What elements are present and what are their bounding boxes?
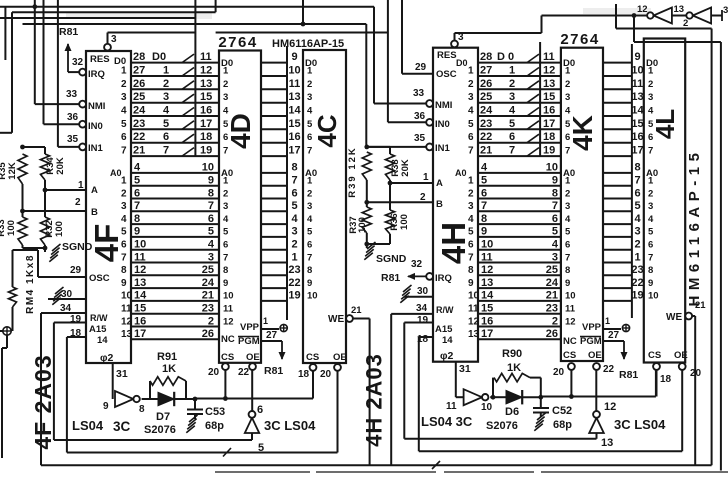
svg-text:RES: RES — [90, 54, 110, 65]
svg-text:NC: NC — [563, 336, 577, 347]
svg-text:φ2: φ2 — [440, 350, 454, 362]
wire top rail 1 (NMI net, both CPUs) — [0, 7, 374, 104]
RAM 4C internal address labels — [305, 168, 318, 302]
svg-text:2: 2 — [648, 79, 653, 90]
svg-text:23: 23 — [133, 118, 145, 130]
svg-text:24: 24 — [202, 277, 215, 289]
svg-text:15: 15 — [288, 118, 300, 130]
svg-text:27: 27 — [608, 330, 620, 341]
svg-text:4: 4 — [468, 214, 474, 225]
svg-text:15: 15 — [481, 303, 493, 315]
svg-text:27: 27 — [266, 330, 278, 341]
svg-text:15: 15 — [134, 303, 146, 315]
svg-text:23: 23 — [288, 264, 300, 276]
svg-text:21: 21 — [133, 145, 145, 157]
svg-text:5: 5 — [307, 119, 313, 130]
svg-text:1K: 1K — [162, 363, 176, 375]
svg-text:1: 1 — [634, 251, 640, 263]
svg-text:13: 13 — [631, 91, 643, 103]
EPROM 4K internal address labels — [563, 168, 577, 347]
inverter 3C LS04 (4H chip-select) — [589, 401, 666, 449]
svg-text:6: 6 — [121, 240, 127, 251]
svg-text:8: 8 — [565, 265, 570, 276]
svg-text:14: 14 — [442, 335, 453, 346]
RAM 4L label 4L — [650, 109, 680, 139]
svg-text:3: 3 — [723, 5, 728, 16]
pin 32 IRQ of 4F — [68, 57, 105, 80]
resistor R36 100 — [386, 183, 411, 234]
svg-text:1: 1 — [648, 176, 654, 187]
svg-text:A15: A15 — [89, 324, 107, 335]
svg-text:9: 9 — [468, 278, 474, 289]
svg-text:2: 2 — [565, 188, 570, 199]
svg-text:D6: D6 — [505, 406, 519, 418]
wire IN0 4H net — [216, 0, 388, 122]
pin 30 of 4F with hatch — [48, 287, 86, 305]
svg-text:4: 4 — [223, 106, 229, 117]
wire top rail 2 entering at left edge — [0, 0, 216, 133]
inverter 3C LS04 (4F chip-select) — [245, 404, 316, 454]
svg-text:12: 12 — [481, 264, 493, 276]
svg-text:17: 17 — [134, 328, 146, 340]
pull-up R81 arrow annotation (4F IRQ) — [59, 26, 78, 72]
svg-text:5: 5 — [208, 226, 214, 238]
svg-text:7: 7 — [307, 252, 312, 263]
svg-text:27: 27 — [133, 65, 145, 77]
svg-text:17: 17 — [288, 145, 300, 157]
scan smudge top left — [66, 13, 212, 19]
svg-text:22: 22 — [288, 277, 300, 289]
svg-text:6: 6 — [634, 187, 640, 199]
svg-text:NMI: NMI — [88, 101, 105, 112]
EPROM 4K label 4K — [567, 115, 598, 151]
svg-text:8: 8 — [307, 265, 312, 276]
svg-text:20: 20 — [208, 367, 220, 378]
svg-text:CS: CS — [221, 352, 234, 363]
wire OSC 4H drop — [401, 0, 403, 74]
svg-text:16: 16 — [481, 315, 493, 327]
svg-text:34: 34 — [416, 303, 428, 314]
svg-text:4: 4 — [163, 105, 170, 117]
svg-text:1: 1 — [307, 66, 313, 77]
svg-text:R91: R91 — [157, 351, 177, 363]
pin 20 CS of 4K — [553, 350, 576, 397]
data rows EPROM 4K to RAM 4L — [603, 51, 644, 157]
svg-text:12: 12 — [200, 65, 212, 77]
svg-text:18: 18 — [660, 374, 672, 385]
scan smudge top right — [583, 8, 651, 14]
svg-text:IN0: IN0 — [435, 119, 450, 130]
svg-text:6: 6 — [565, 240, 570, 251]
svg-text:8: 8 — [223, 265, 228, 276]
svg-text:11: 11 — [468, 304, 479, 315]
svg-text:PGM: PGM — [238, 336, 260, 347]
svg-text:11: 11 — [223, 304, 234, 315]
svg-text:6: 6 — [648, 132, 653, 143]
pin 1 A of 4H — [390, 172, 443, 189]
svg-text:5: 5 — [163, 118, 169, 130]
svg-text:11: 11 — [200, 51, 212, 63]
CPU 4H internal data pin labels — [456, 58, 474, 157]
pin 31 phi2 wire of 4F — [113, 363, 128, 399]
svg-text:IN0: IN0 — [88, 121, 103, 132]
terminal circle (RM4 input) — [0, 327, 11, 458]
svg-text:19: 19 — [417, 315, 429, 326]
svg-text:25: 25 — [133, 91, 145, 103]
svg-text:1: 1 — [307, 176, 313, 187]
svg-text:6: 6 — [565, 132, 570, 143]
pin 21 WE of 4L — [666, 300, 706, 465]
svg-text:A0: A0 — [110, 168, 122, 178]
svg-text:VPP: VPP — [240, 322, 260, 333]
svg-text:6: 6 — [509, 131, 515, 143]
svg-text:18: 18 — [70, 328, 82, 339]
svg-text:20: 20 — [690, 368, 702, 379]
svg-text:5: 5 — [468, 227, 474, 238]
svg-text:S2076: S2076 — [144, 424, 176, 436]
data bus vertical (right) — [539, 42, 541, 157]
svg-text:23: 23 — [631, 264, 643, 276]
svg-text:4: 4 — [481, 162, 488, 174]
svg-text:13: 13 — [674, 4, 685, 15]
svg-text:4: 4 — [565, 106, 571, 117]
bus line between 4K and 4L — [631, 44, 633, 318]
svg-text:19: 19 — [288, 290, 300, 302]
svg-text:8: 8 — [634, 162, 640, 174]
svg-text:2764: 2764 — [218, 34, 257, 51]
svg-text:8: 8 — [481, 213, 487, 225]
svg-text:16: 16 — [200, 105, 212, 117]
svg-text:R/W: R/W — [436, 305, 454, 315]
svg-text:2: 2 — [509, 78, 515, 90]
svg-text:10: 10 — [223, 291, 234, 302]
svg-text:A0: A0 — [455, 168, 467, 178]
svg-text:4: 4 — [121, 106, 127, 117]
svg-text:13: 13 — [468, 329, 480, 340]
svg-text:28: 28 — [480, 51, 492, 63]
svg-text:6: 6 — [163, 131, 169, 143]
svg-text:C52: C52 — [552, 405, 572, 417]
svg-text:3C: 3C — [113, 419, 131, 434]
svg-text:6: 6 — [552, 213, 558, 225]
wire RC node to CS 4K and CS 4L — [541, 370, 656, 399]
svg-text:R81: R81 — [264, 365, 283, 377]
svg-text:1: 1 — [605, 316, 610, 326]
svg-text:6: 6 — [134, 187, 140, 199]
svg-text:21: 21 — [480, 145, 492, 157]
svg-text:3C LS04: 3C LS04 — [264, 418, 316, 433]
pin 21 WE of 4C — [328, 305, 370, 465]
label 2764 (left) — [218, 34, 257, 51]
address rows CPU 4H to EPROM 4K — [478, 162, 561, 340]
node RC junction (right) — [538, 395, 543, 400]
svg-text:3: 3 — [307, 201, 312, 212]
svg-text:CS: CS — [563, 350, 576, 361]
svg-text:B: B — [91, 207, 98, 218]
svg-text:4: 4 — [648, 106, 654, 117]
svg-text:12: 12 — [121, 316, 133, 327]
svg-text:2: 2 — [648, 188, 653, 199]
svg-text:9: 9 — [103, 401, 109, 412]
svg-text:25: 25 — [480, 91, 492, 103]
svg-text:OE: OE — [333, 352, 347, 363]
svg-text:4H 2A03: 4H 2A03 — [362, 353, 387, 447]
svg-text:18: 18 — [298, 369, 310, 380]
svg-text:3: 3 — [648, 201, 653, 212]
svg-text:RM4 1Kx8: RM4 1Kx8 — [25, 254, 36, 314]
resistor R91 1K — [150, 351, 186, 399]
svg-text:9: 9 — [565, 278, 570, 289]
svg-text:2: 2 — [208, 315, 214, 327]
svg-text:2: 2 — [683, 18, 688, 29]
svg-text:B: B — [436, 199, 443, 210]
svg-text:SGND: SGND — [62, 241, 93, 253]
svg-text:D7: D7 — [156, 411, 170, 423]
svg-text:14: 14 — [97, 335, 108, 346]
inverter 3C LS04 (4F clock) — [72, 391, 145, 434]
wire A15 4H to OE 4L — [419, 337, 682, 451]
pin 2 B of 4H — [367, 192, 443, 210]
svg-text:2: 2 — [565, 79, 570, 90]
svg-text:28: 28 — [133, 51, 145, 63]
svg-text:1: 1 — [468, 66, 474, 77]
svg-text:36: 36 — [414, 111, 426, 122]
svg-text:3: 3 — [291, 226, 297, 238]
label RES inside 4F — [90, 54, 110, 65]
svg-text:4: 4 — [134, 162, 141, 174]
svg-text:PGM: PGM — [580, 336, 602, 347]
svg-text:13: 13 — [601, 437, 613, 449]
svg-text:4: 4 — [208, 239, 215, 251]
pin 20 CS of 4D — [208, 352, 234, 399]
pin 36 IN0 of 4F — [44, 112, 103, 132]
wire R38 to pin A of 4H — [388, 180, 393, 185]
svg-text:OSC: OSC — [89, 273, 110, 284]
diode D6 S2076 — [486, 390, 541, 432]
svg-text:6: 6 — [307, 132, 312, 143]
svg-text:32: 32 — [411, 259, 423, 270]
svg-text:20: 20 — [553, 367, 565, 378]
svg-text:6: 6 — [208, 213, 214, 225]
svg-text:1: 1 — [223, 66, 229, 77]
svg-text:7: 7 — [468, 146, 474, 157]
svg-text:23: 23 — [546, 303, 558, 315]
svg-text:10: 10 — [202, 162, 214, 174]
EPROM 4D label 4D — [225, 113, 256, 149]
svg-text:8: 8 — [139, 404, 145, 415]
svg-text:7: 7 — [552, 200, 558, 212]
svg-text:9: 9 — [223, 278, 228, 289]
svg-text:HM6116AP-15: HM6116AP-15 — [686, 148, 703, 307]
svg-text:12: 12 — [637, 4, 648, 15]
svg-text:7: 7 — [121, 252, 127, 263]
svg-text:4L: 4L — [650, 109, 680, 139]
label RES inside 4H — [437, 50, 457, 61]
svg-text:7: 7 — [509, 145, 515, 157]
svg-text:3: 3 — [223, 92, 228, 103]
svg-text:8: 8 — [291, 162, 297, 174]
wire R34 to pin A — [43, 180, 48, 192]
svg-text:3: 3 — [307, 92, 312, 103]
svg-text:1: 1 — [163, 65, 169, 77]
svg-text:31: 31 — [116, 368, 128, 380]
svg-text:S2076: S2076 — [486, 420, 518, 432]
svg-text:C53: C53 — [205, 406, 225, 418]
svg-text:9: 9 — [121, 278, 127, 289]
svg-text:21: 21 — [546, 290, 558, 302]
svg-text:24: 24 — [546, 277, 559, 289]
svg-text:23: 23 — [480, 118, 492, 130]
wire inverter out to RC node — [142, 398, 158, 400]
resistor R37 100 — [348, 207, 371, 234]
svg-text:7: 7 — [648, 146, 653, 157]
svg-text:16: 16 — [134, 315, 146, 327]
CPU 4H label 4H — [435, 222, 472, 264]
svg-text:1: 1 — [78, 180, 84, 191]
svg-text:VPP: VPP — [582, 322, 602, 333]
pin 35 IN1 of 4H — [367, 133, 451, 154]
svg-text:22: 22 — [133, 131, 145, 143]
svg-text:1: 1 — [423, 172, 429, 183]
pin 29 OSC of 4H — [402, 62, 457, 80]
svg-text:D 0: D 0 — [497, 51, 514, 63]
svg-text:27: 27 — [480, 65, 492, 77]
svg-text:9: 9 — [481, 226, 487, 238]
svg-text:HM6116AP-15: HM6116AP-15 — [272, 38, 344, 50]
pin 31 phi2 wire of 4H — [456, 362, 471, 398]
svg-text:10: 10 — [307, 291, 318, 302]
svg-text:R81: R81 — [381, 272, 400, 284]
node junction on NMI rail — [32, 4, 37, 9]
svg-text:12: 12 — [543, 65, 555, 77]
svg-text:OSC: OSC — [436, 69, 457, 80]
svg-text:5: 5 — [565, 227, 571, 238]
svg-text:1: 1 — [121, 176, 127, 187]
svg-text:CS: CS — [306, 352, 319, 363]
svg-text:68p: 68p — [205, 420, 224, 432]
pin 19 of 4H — [404, 315, 453, 335]
svg-text:19: 19 — [200, 145, 212, 157]
svg-text:11: 11 — [121, 304, 132, 315]
svg-text:WE: WE — [328, 314, 344, 325]
svg-text:1: 1 — [263, 316, 268, 326]
svg-text:5: 5 — [291, 200, 297, 212]
svg-text:100: 100 — [54, 221, 65, 237]
svg-text:12: 12 — [604, 401, 616, 413]
svg-text:8: 8 — [468, 265, 474, 276]
node R39/R38 top junction — [364, 145, 369, 150]
CPU 4F label 4F — [88, 224, 125, 263]
svg-text:14: 14 — [481, 290, 494, 302]
svg-text:17: 17 — [200, 118, 212, 130]
resistor R90 1K — [493, 348, 541, 397]
resistor R38 20K — [386, 154, 412, 180]
svg-text:R90: R90 — [502, 348, 522, 360]
svg-text:6: 6 — [121, 132, 127, 143]
wire inverter out to RC node (right) — [490, 395, 506, 400]
node junction on rail 4 — [301, 22, 306, 27]
svg-text:9: 9 — [134, 226, 140, 238]
svg-text:6: 6 — [223, 240, 228, 251]
wire R/W 4H to inverter 3C pin 13 — [404, 323, 596, 439]
resistor R33 100 — [0, 217, 27, 245]
svg-text:25: 25 — [546, 264, 558, 276]
svg-text:100: 100 — [357, 217, 368, 233]
svg-text:22: 22 — [603, 364, 615, 375]
node R35/R34 top junction — [20, 145, 25, 150]
svg-text:4: 4 — [291, 213, 298, 225]
wire bias to R38 — [367, 147, 390, 154]
svg-text:13: 13 — [200, 78, 212, 90]
wire IN0 4F drop — [43, 0, 45, 124]
svg-text:A: A — [436, 178, 443, 189]
svg-text:3: 3 — [223, 201, 228, 212]
svg-text:RES: RES — [437, 50, 457, 61]
data bus rows CPU 4F to bus — [131, 51, 195, 157]
svg-text:11: 11 — [565, 304, 576, 315]
data bus rows bus to EPROM 4D — [195, 51, 219, 157]
svg-text:34: 34 — [60, 303, 72, 314]
svg-text:7: 7 — [648, 252, 653, 263]
svg-text:3: 3 — [648, 92, 653, 103]
node junction at inverter output — [632, 13, 637, 18]
svg-text:29: 29 — [70, 265, 82, 276]
svg-text:9: 9 — [634, 51, 640, 63]
EPROM 4D box (2764) — [219, 51, 261, 363]
svg-text:11: 11 — [543, 51, 555, 63]
svg-text:1K: 1K — [507, 362, 521, 374]
svg-text:3: 3 — [163, 91, 169, 103]
svg-text:5: 5 — [121, 227, 127, 238]
svg-text:1: 1 — [223, 176, 229, 187]
wire R35 to B rail — [20, 184, 25, 217]
EPROM 4K box (2764) — [561, 48, 603, 361]
svg-text:68p: 68p — [553, 419, 572, 431]
address rows EPROM 4K to RAM 4L — [603, 162, 644, 302]
svg-text:35: 35 — [414, 133, 426, 144]
svg-text:24: 24 — [133, 105, 146, 117]
svg-text:20: 20 — [320, 369, 332, 380]
svg-text:8: 8 — [134, 213, 140, 225]
wire left edge stub — [4, 7, 6, 60]
svg-text:11: 11 — [632, 78, 644, 90]
svg-text:5: 5 — [121, 119, 127, 130]
svg-text:4C: 4C — [312, 114, 342, 147]
pin 19 R/W of 4F — [54, 313, 108, 325]
svg-text:7: 7 — [163, 145, 169, 157]
svg-text:10: 10 — [481, 239, 493, 251]
pin 30 of 4H with hatch — [400, 285, 433, 303]
svg-text:7: 7 — [223, 252, 228, 263]
label 2764 (right) — [560, 31, 599, 48]
svg-text:6: 6 — [468, 240, 474, 251]
wire IN1 4F drop — [57, 0, 59, 147]
data rows EPROM 4D to RAM 4C — [261, 51, 301, 157]
svg-text:1: 1 — [509, 65, 515, 77]
svg-text:9: 9 — [208, 175, 214, 187]
svg-text:2: 2 — [223, 79, 228, 90]
svg-text:10: 10 — [288, 65, 300, 77]
svg-text:9: 9 — [552, 175, 558, 187]
EPROM 4D internal data labels — [221, 58, 233, 157]
svg-text:11: 11 — [481, 251, 493, 263]
svg-text:3: 3 — [121, 92, 127, 103]
svg-text:5: 5 — [223, 227, 229, 238]
RAM 4L internal address labels — [646, 168, 659, 302]
svg-text:17: 17 — [543, 118, 555, 130]
svg-text:7: 7 — [223, 146, 228, 157]
wire RES 4F net — [108, 33, 196, 46]
